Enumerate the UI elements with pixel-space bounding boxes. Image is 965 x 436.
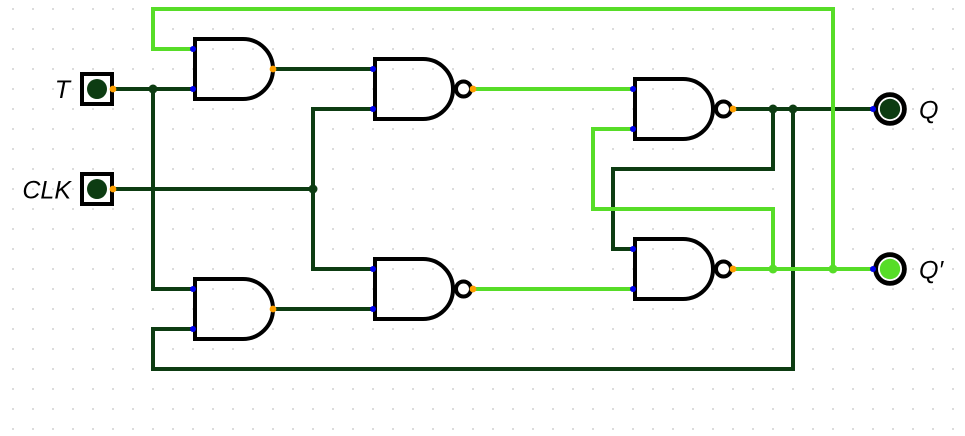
wire U1 output to U2 input: [273, 67, 373, 71]
wire CLK junction up to U2 input and down to U5 input: [313, 109, 373, 269]
input button T: [82, 74, 116, 104]
nand-gate U3: [630, 79, 736, 139]
junction Q' feedback 2: [829, 265, 838, 274]
nand-gate U5: [370, 259, 476, 319]
junction Q' feedback 1: [769, 265, 778, 274]
nand-gate U6: [630, 239, 736, 299]
junction Q feedback 2: [789, 105, 798, 114]
svg-text:CLK: CLK: [22, 177, 72, 205]
wire U2 output to U3 input: [473, 87, 633, 91]
and-gate U4: [190, 279, 276, 339]
wire Q' feedback to U3 input: [593, 129, 773, 269]
wire U4 output to U5 input: [273, 307, 373, 311]
nand-gate U2: [370, 59, 476, 119]
wire T input to gate U1: [113, 87, 193, 91]
wire U6 output to Q': [733, 267, 873, 271]
input button CLK: [82, 174, 116, 204]
wire Q' feedback to U1 input: [153, 9, 833, 269]
wire Q feedback to U6 input: [613, 109, 773, 249]
wire U5 output to U6 input: [473, 287, 633, 291]
wire Q feedback to U4 input: [153, 109, 793, 369]
output LED Q': [870, 255, 904, 284]
wire U3 output to Q: [733, 107, 873, 111]
wire CLK to junction: [113, 187, 313, 191]
svg-text:T: T: [55, 76, 72, 104]
junction CLK branch: [309, 185, 318, 194]
wire T branch down to gate U4 input: [153, 89, 193, 289]
and-gate U1: [190, 39, 276, 99]
junction T branch: [149, 85, 158, 94]
output LED Q: [870, 95, 904, 124]
junction Q feedback 1: [769, 105, 778, 114]
svg-text:Q: Q: [919, 97, 938, 125]
svg-text:Q′: Q′: [919, 257, 944, 285]
